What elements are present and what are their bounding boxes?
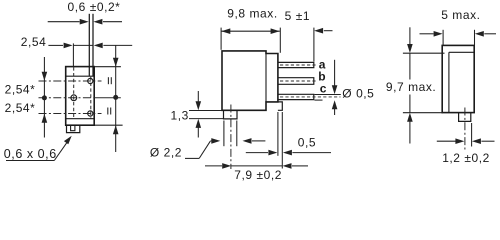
extension line bottom right bbox=[95, 124, 123, 126]
pin c centerline bbox=[280, 96, 341, 98]
extension line top right bbox=[94, 66, 121, 68]
svg-text:2,54*: 2,54* bbox=[5, 82, 36, 96]
body outline (front view) bbox=[66, 67, 95, 126]
svg-text:2,54*: 2,54* bbox=[5, 101, 36, 115]
pin c circle bbox=[88, 111, 93, 116]
ext seating face bbox=[281, 112, 283, 169]
rotor bushing bbox=[224, 110, 238, 119]
right dimension line of view 1 bbox=[94, 45, 122, 152]
svg-text:0,6 x 0,6: 0,6 x 0,6 bbox=[4, 147, 57, 161]
ext right of stub bbox=[471, 123, 473, 147]
ext pin c top bbox=[315, 94, 341, 96]
svg-text:Ø 0,5: Ø 0,5 bbox=[342, 87, 374, 101]
centerline pin a bbox=[39, 80, 102, 82]
leader for 0,6 x 0,6 bbox=[6, 136, 72, 161]
slot line right bbox=[92, 14, 94, 76]
down arrow bbox=[334, 60, 336, 88]
svg-text:c: c bbox=[320, 82, 327, 96]
pin b circle bbox=[71, 95, 77, 101]
svg-text:2,54: 2,54 bbox=[21, 35, 47, 49]
ext pin c bottom bbox=[315, 99, 323, 101]
extension line left bbox=[220, 28, 222, 50]
pin c (side) bbox=[278, 94, 314, 99]
joint line body/pin block bbox=[265, 54, 267, 102]
extension line right (shared) bbox=[279, 28, 281, 53]
ext left bbox=[442, 30, 444, 45]
leader for Ø 2,2 bbox=[185, 141, 210, 158]
svg-text:9,8 max.: 9,8 max. bbox=[227, 7, 277, 21]
pin b row extension solid bbox=[94, 97, 121, 99]
pin a (side) bbox=[278, 62, 314, 67]
dimension 2,54 top lines bbox=[48, 43, 132, 67]
ext bushing right bbox=[236, 121, 238, 147]
rotor centerline bbox=[230, 105, 232, 170]
svg-text:9,7 max.: 9,7 max. bbox=[386, 80, 436, 94]
svg-text:5 max.: 5 max. bbox=[441, 8, 480, 22]
centerline pin b bbox=[39, 97, 95, 99]
cover edge vertical bbox=[448, 52, 450, 112]
rotor stub bbox=[459, 113, 471, 122]
ext bottom bbox=[403, 112, 443, 114]
hidden line column a/c bbox=[90, 77, 92, 119]
cover joint line upper bbox=[66, 75, 95, 77]
parallel mark lower bbox=[108, 108, 111, 115]
dimension Ø 0,5 bbox=[315, 60, 341, 115]
parallel mark upper bbox=[108, 77, 111, 84]
ext top bbox=[403, 52, 445, 54]
left dimension line with arrows and dot bbox=[42, 57, 48, 138]
svg-text:Ø 2,2: Ø 2,2 bbox=[150, 146, 182, 160]
pin b centerline bbox=[280, 80, 316, 82]
hidden line column b bbox=[73, 67, 75, 118]
bottom lug small square 0,6 x 0,6 bbox=[71, 125, 75, 130]
dimension Ø 2,2 bbox=[210, 121, 265, 147]
svg-text:0,6 ±0,2*: 0,6 ±0,2* bbox=[68, 0, 121, 14]
ext body right face bbox=[277, 112, 279, 156]
centerline pin c bbox=[39, 113, 102, 115]
body outline (end view) bbox=[442, 45, 474, 121]
bottom lug outer bbox=[67, 125, 80, 132]
cover edge horizontal bbox=[449, 51, 474, 53]
seating boss bbox=[278, 102, 282, 110]
dimension 5 max. bbox=[420, 30, 497, 45]
svg-text:7,9 ±0,2: 7,9 ±0,2 bbox=[234, 168, 282, 182]
dimension 9,7 max. bbox=[403, 27, 445, 143]
ext right bbox=[474, 30, 476, 45]
svg-text:5 ±1: 5 ±1 bbox=[285, 9, 310, 23]
pin a centerline bbox=[280, 64, 316, 66]
cover joint line lower bbox=[66, 118, 95, 120]
dimension 1,2 ±0,2 bbox=[437, 123, 495, 147]
svg-text:0,5: 0,5 bbox=[298, 136, 316, 150]
ext bushing left bbox=[223, 121, 225, 147]
dimension 5 ±1 lines bbox=[314, 28, 333, 62]
dimension 1,3 bbox=[189, 91, 223, 138]
dimension 0,6 lines bbox=[48, 19, 122, 25]
dimension 7,9 ±0,2 bbox=[205, 163, 308, 169]
body outline (side view) bbox=[222, 51, 282, 119]
svg-text:1,3: 1,3 bbox=[171, 109, 189, 123]
dimension 9,8 lines bbox=[221, 28, 280, 53]
svg-text:1,2 ±0,2: 1,2 ±0,2 bbox=[442, 151, 490, 165]
up arrow bbox=[334, 107, 336, 116]
slot line left bbox=[88, 14, 90, 76]
pin b (side) bbox=[278, 78, 314, 85]
dimension 0,5 bbox=[246, 112, 331, 169]
rotor stub centerline bbox=[464, 108, 466, 152]
pin a circle bbox=[88, 78, 93, 83]
